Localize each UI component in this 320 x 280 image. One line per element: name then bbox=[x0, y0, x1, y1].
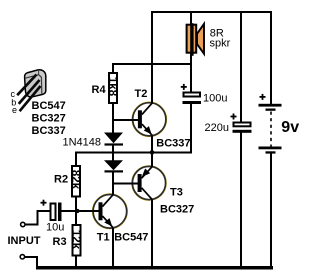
wire R4 top stem bbox=[112, 63, 114, 72]
svg-text:220u: 220u bbox=[205, 122, 229, 134]
svg-text:BC327: BC327 bbox=[32, 112, 66, 124]
wire speaker bottom to node A bbox=[190, 53, 192, 92]
wire battery bottom to ground rail bbox=[270, 153, 272, 268]
wire T1 emitter to ground rail bbox=[112, 228, 114, 268]
resistor R3 box bbox=[69, 225, 81, 256]
wire V+ rail to 220u bbox=[240, 11, 242, 122]
transistor T2 internals (NPN BC337) bbox=[138, 103, 153, 136]
wire top positive rail bbox=[151, 11, 272, 13]
label 8R spkr bbox=[210, 27, 231, 49]
transistor T1 circle (body) bbox=[93, 194, 128, 229]
transistor T2 circle (body) bbox=[132, 102, 166, 136]
transistor T1 internals (NPN BC547) bbox=[99, 195, 114, 228]
capacitor C2 100u bbox=[181, 84, 201, 104]
resistor R4 box bbox=[106, 73, 118, 103]
wire diode D1 to D2 link bbox=[112, 145, 114, 161]
wire T2 base bbox=[112, 119, 139, 121]
svg-text:BC547: BC547 bbox=[114, 232, 148, 244]
wire V+ drop to T2 collector bbox=[151, 11, 153, 103]
node output junction dot bbox=[150, 150, 155, 155]
wire input top terminal to 10u bbox=[26, 224, 39, 226]
svg-text:T2: T2 bbox=[135, 88, 148, 100]
wire R2 top stem bbox=[75, 152, 77, 166]
svg-text:12k: 12k bbox=[69, 230, 81, 250]
speaker LS1 8R bbox=[187, 23, 204, 56]
wire diode D2 to T1 collector bbox=[112, 172, 114, 195]
diode D1 1N4148 bbox=[104, 133, 123, 146]
battery B1 9v bbox=[259, 94, 282, 154]
wire V+ rail to battery bbox=[270, 11, 272, 104]
svg-text:1N4148: 1N4148 bbox=[63, 137, 102, 149]
svg-text:1k8: 1k8 bbox=[106, 77, 118, 97]
wire speaker top drop bbox=[190, 11, 192, 24]
transistor T3 internals (PNP BC327) bbox=[138, 167, 153, 200]
capacitor C1 10u bbox=[41, 200, 62, 221]
wire T3 collector to ground rail bbox=[151, 199, 153, 268]
wire 220u bottom to ground rail bbox=[240, 133, 242, 269]
svg-text:100u: 100u bbox=[203, 93, 227, 105]
input terminal top bbox=[21, 222, 25, 226]
svg-text:BC337: BC337 bbox=[32, 125, 66, 137]
svg-text:BC337: BC337 bbox=[156, 138, 190, 150]
capacitor C3 220u bbox=[231, 114, 252, 133]
svg-text:BC327: BC327 bbox=[160, 204, 194, 216]
wire input bottom terminal to ground rail bbox=[25, 256, 36, 258]
transistor T3 circle (body) bbox=[132, 166, 166, 200]
wire node A horizontal (R4 top to speaker/100u line) bbox=[112, 63, 192, 65]
wire R2 bottom to base node bbox=[75, 198, 77, 212]
svg-text:9v: 9v bbox=[281, 119, 299, 136]
wire output node to T3 emitter bbox=[151, 152, 153, 167]
diode D2 1N4148 bbox=[104, 160, 123, 172]
wire 10u to T1 base node bbox=[62, 210, 101, 212]
svg-text:T3: T3 bbox=[170, 186, 183, 198]
node T1 base junction dot bbox=[75, 209, 79, 213]
svg-text:e: e bbox=[12, 105, 17, 115]
svg-text:INPUT: INPUT bbox=[8, 235, 41, 247]
svg-text:BC547: BC547 bbox=[32, 100, 66, 112]
wire R3 bottom to ground rail bbox=[75, 257, 77, 268]
resistor R2 box bbox=[69, 166, 81, 197]
TO-92 transistor package drawing bbox=[17, 70, 46, 111]
svg-text:R4: R4 bbox=[92, 84, 107, 96]
wire T2 emitter to output node bbox=[151, 136, 153, 153]
svg-text:10u: 10u bbox=[46, 222, 64, 234]
svg-text:R3: R3 bbox=[53, 236, 67, 248]
svg-text:82k: 82k bbox=[69, 170, 81, 190]
wire ground rail bbox=[36, 266, 273, 270]
wire R4 bottom to diode D1 bbox=[112, 104, 114, 133]
svg-text:spkr: spkr bbox=[210, 37, 231, 49]
wire base node to R3 top bbox=[75, 211, 77, 224]
wire T3 base bbox=[112, 183, 140, 185]
svg-text:T1: T1 bbox=[97, 232, 110, 244]
wire feedback output to R2 top bbox=[75, 152, 192, 154]
wire 100u bottom to output node bbox=[190, 104, 192, 153]
input terminal bottom bbox=[20, 255, 24, 259]
svg-text:R2: R2 bbox=[54, 174, 68, 186]
